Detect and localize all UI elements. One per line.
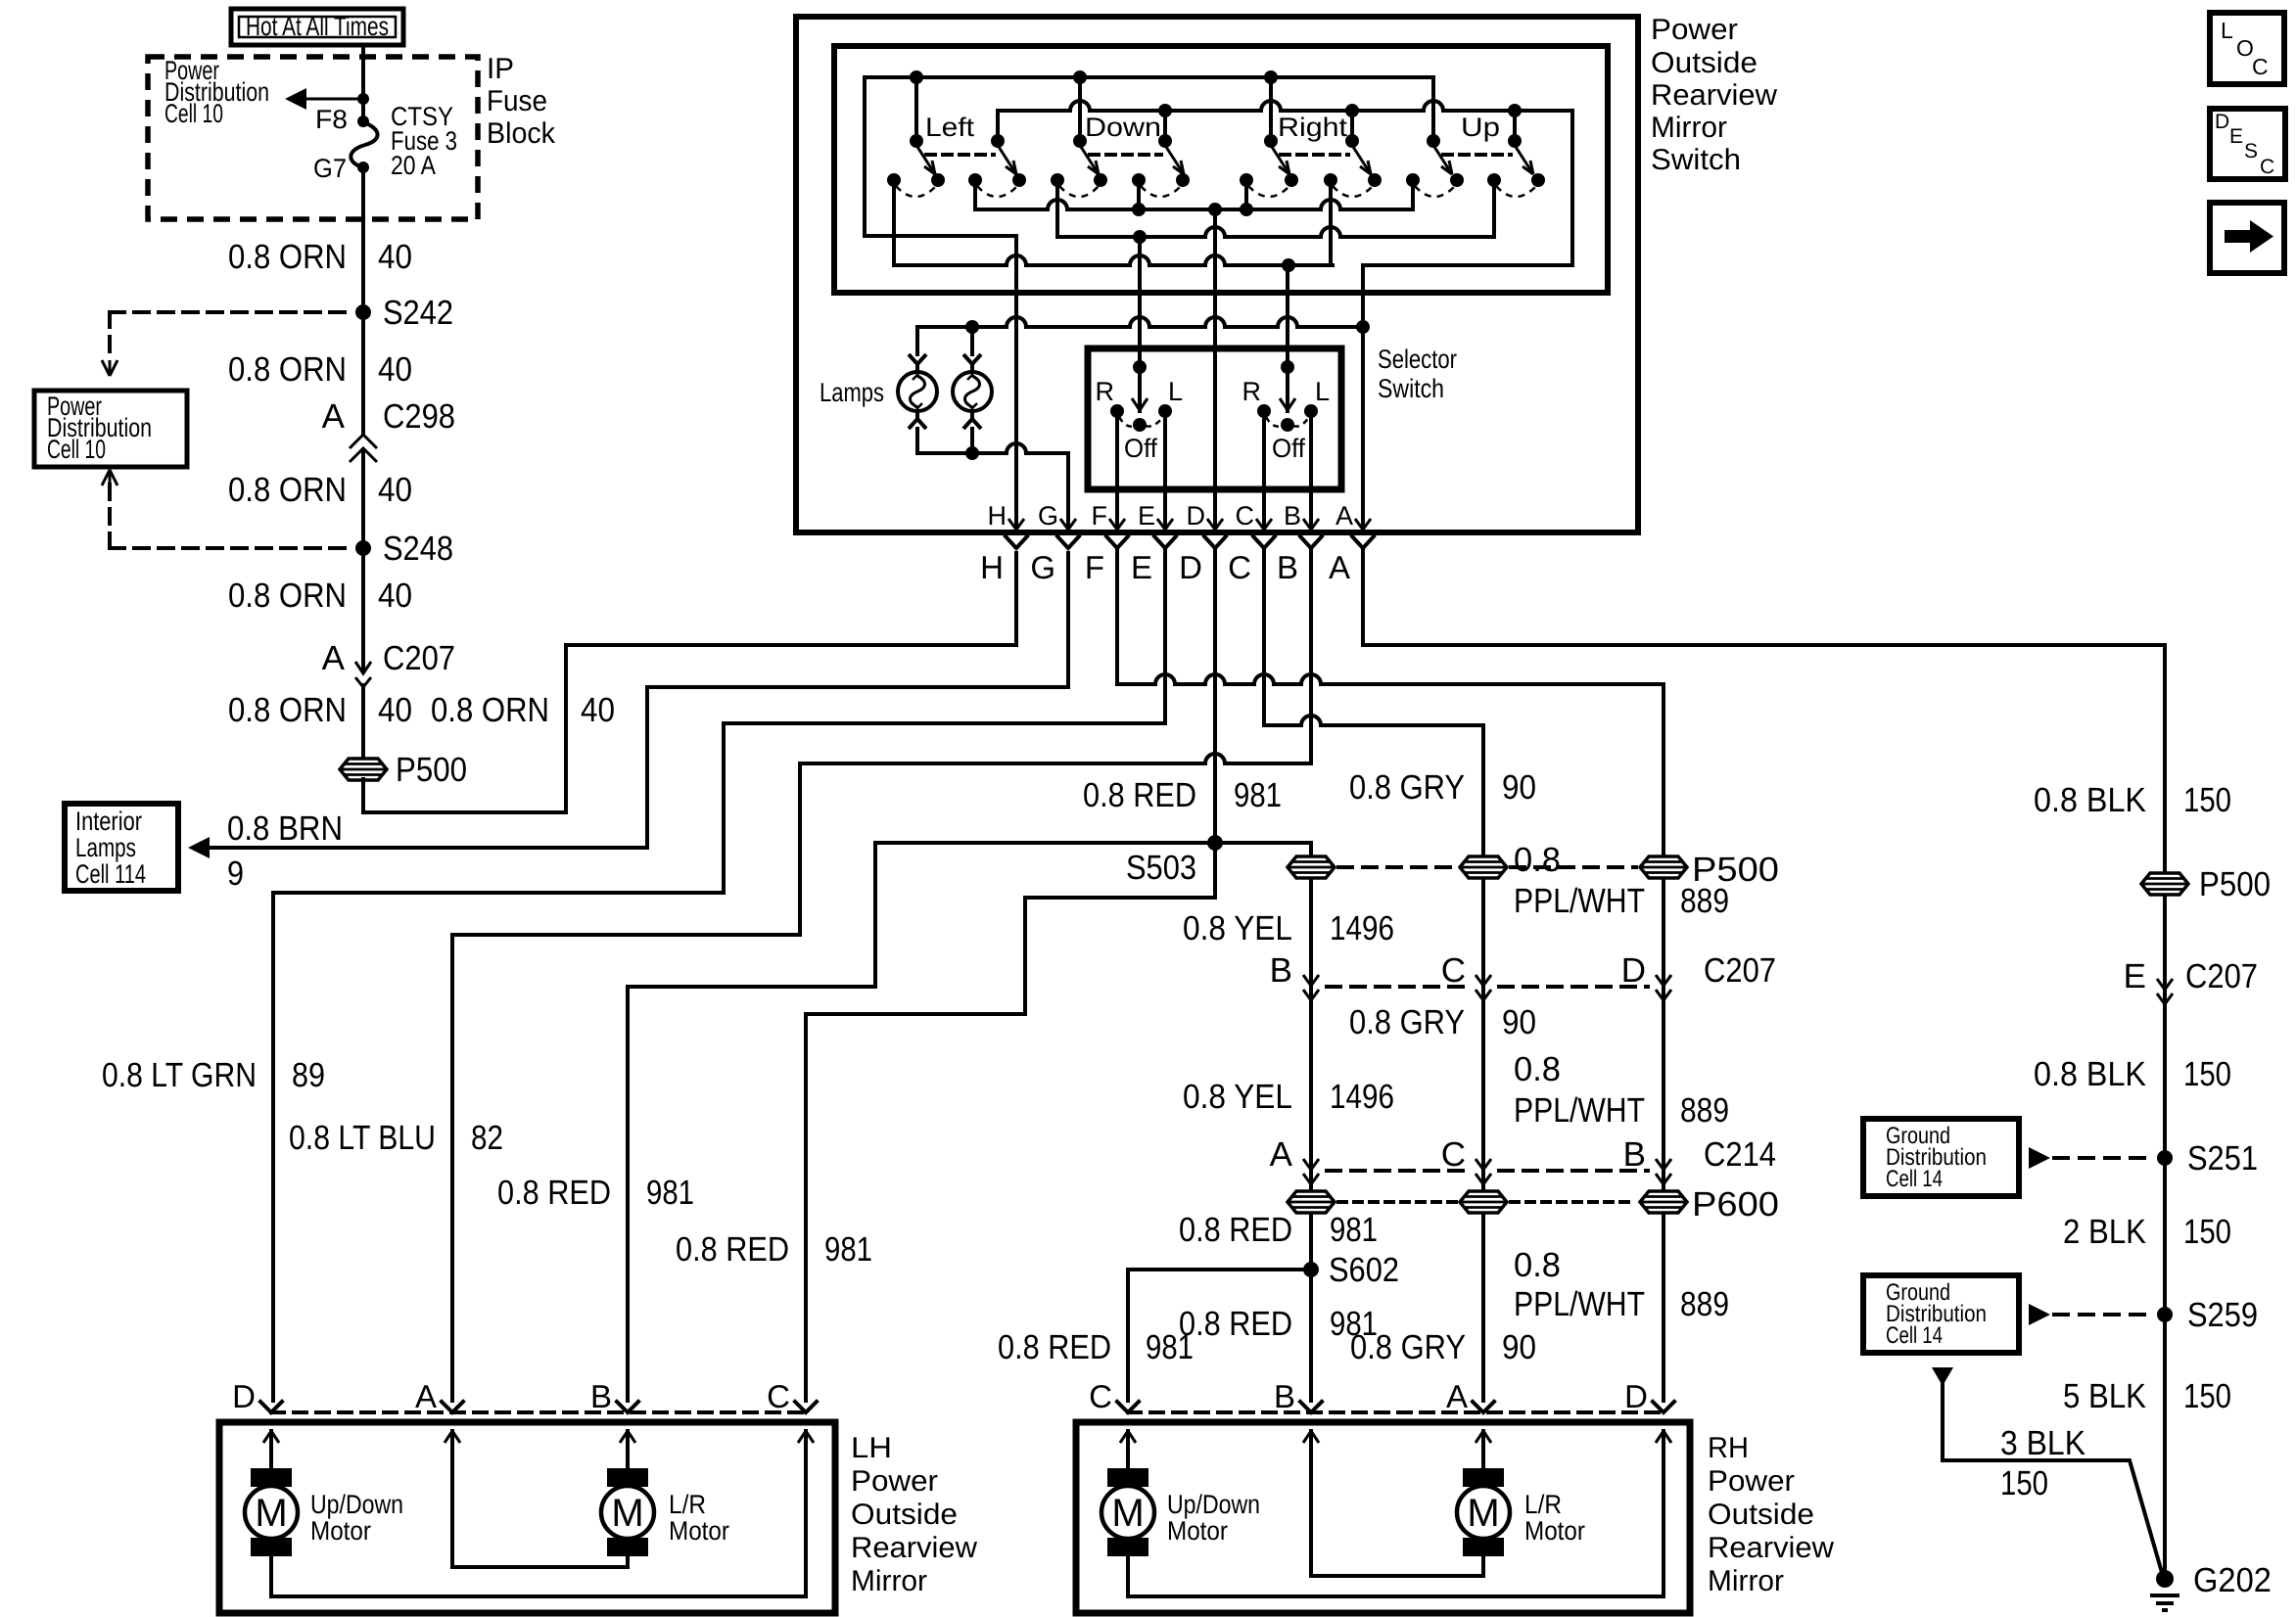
svg-text:G: G xyxy=(1038,501,1058,531)
wire from pin B (0.8 LT BLU 82) xyxy=(1309,548,1313,763)
RH mirror connector row xyxy=(1128,1410,1663,1414)
svg-text:0.8: 0.8 xyxy=(1514,841,1561,879)
svg-text:889: 889 xyxy=(1680,882,1729,920)
svg-text:L: L xyxy=(1168,377,1183,406)
svg-text:Cell 10: Cell 10 xyxy=(164,99,223,128)
svg-text:981: 981 xyxy=(824,1230,872,1269)
svg-text:Off: Off xyxy=(1124,434,1157,463)
svg-text:A: A xyxy=(322,397,346,436)
svg-text:R: R xyxy=(1242,377,1262,406)
pin connectors and letters below switch xyxy=(1006,536,1027,548)
svg-text:E: E xyxy=(1131,549,1152,585)
arrow to Power Distribution Cell 10 (left) xyxy=(285,88,369,110)
svg-text:Off: Off xyxy=(1272,434,1305,463)
LH Power Outside Rearview Mirror box xyxy=(219,1422,835,1613)
S503 branch down middle chain xyxy=(1215,843,1311,1401)
svg-text:Power: Power xyxy=(851,1465,938,1498)
svg-text:A: A xyxy=(1329,549,1350,585)
Ground Distribution Cell 14 box (upper) xyxy=(1863,1119,2019,1196)
svg-text:0.8 ORN: 0.8 ORN xyxy=(228,471,347,509)
svg-text:0.8 BLK: 0.8 BLK xyxy=(2034,1055,2146,1093)
svg-text:Mirror: Mirror xyxy=(1708,1565,1784,1597)
svg-text:Up: Up xyxy=(1461,113,1500,142)
svg-text:889: 889 xyxy=(1680,1285,1729,1323)
svg-text:150: 150 xyxy=(2183,1213,2231,1251)
wire label 0.8 ORN 40 xyxy=(228,238,412,276)
switch pivots and arms xyxy=(910,134,923,148)
svg-text:P600: P600 xyxy=(1692,1185,1779,1224)
wire from pin D (0.8 RED 981) xyxy=(1213,548,1217,843)
svg-text:40: 40 xyxy=(378,691,412,729)
dashed branch from S242 to Power Distribution box xyxy=(102,312,353,376)
svg-text:0.8: 0.8 xyxy=(1514,1050,1561,1088)
svg-text:89: 89 xyxy=(292,1056,325,1094)
svg-text:F: F xyxy=(1092,501,1108,531)
svg-text:150: 150 xyxy=(2183,1055,2231,1093)
svg-text:Lamps: Lamps xyxy=(820,378,884,407)
svg-text:40: 40 xyxy=(378,350,412,389)
svg-text:D: D xyxy=(1621,951,1646,990)
svg-text:Lamps: Lamps xyxy=(75,833,136,862)
svg-text:0.8 ORN: 0.8 ORN xyxy=(228,691,347,729)
svg-text:Cell 14: Cell 14 xyxy=(1886,1322,1943,1349)
svg-text:D: D xyxy=(1624,1378,1648,1414)
svg-text:S248: S248 xyxy=(383,530,453,568)
svg-text:A: A xyxy=(415,1378,437,1414)
selector common feed from second bus xyxy=(1363,111,1572,327)
selector group feeds xyxy=(1140,237,1288,411)
svg-text:90: 90 xyxy=(1502,1328,1536,1366)
svg-text:S602: S602 xyxy=(1329,1251,1399,1289)
svg-text:E: E xyxy=(2229,125,2243,148)
svg-text:D: D xyxy=(232,1378,256,1414)
svg-text:1496: 1496 xyxy=(1330,909,1394,947)
ground G202 xyxy=(2156,1570,2174,1588)
wire label 0.8 ORN 40 xyxy=(228,471,412,509)
svg-text:C207: C207 xyxy=(2185,957,2258,995)
svg-text:L: L xyxy=(1315,377,1330,406)
RH internal wires xyxy=(1128,1431,1663,1596)
svg-text:0.8 YEL: 0.8 YEL xyxy=(1183,1078,1292,1116)
RH Power Outside Rearview Mirror box xyxy=(1076,1422,1690,1613)
svg-text:A: A xyxy=(1446,1378,1468,1414)
svg-text:C: C xyxy=(767,1378,790,1414)
DESC icon box xyxy=(2210,109,2285,179)
svg-text:40: 40 xyxy=(378,238,412,276)
RH L/R motor xyxy=(1457,1468,1510,1556)
svg-text:Power: Power xyxy=(1651,14,1738,46)
H feed jog from top bus xyxy=(865,77,1016,236)
rail R3 xyxy=(894,255,1333,265)
svg-text:B: B xyxy=(1274,1378,1295,1414)
splice S259 xyxy=(2157,1307,2173,1322)
svg-text:0.8 GRY: 0.8 GRY xyxy=(1350,1328,1466,1366)
selector group 2 xyxy=(1242,360,1331,532)
svg-text:B: B xyxy=(1284,501,1301,531)
svg-text:0.8 ORN: 0.8 ORN xyxy=(228,350,347,389)
svg-text:E: E xyxy=(1138,501,1155,531)
svg-text:L/R: L/R xyxy=(669,1490,706,1519)
connector row C214 xyxy=(1303,1159,1319,1184)
svg-text:S242: S242 xyxy=(383,294,453,332)
splice S503 xyxy=(1207,835,1223,851)
wire from pin A (0.8 BLK 150) xyxy=(1363,548,2165,1579)
svg-text:Switch: Switch xyxy=(1651,144,1741,176)
svg-text:Motor: Motor xyxy=(310,1516,371,1546)
connector C298 pin A xyxy=(322,312,455,548)
S602 branch to RH mirror pin C xyxy=(1128,1270,1311,1401)
wire ORN to pin H of switch xyxy=(363,553,1016,812)
svg-text:A: A xyxy=(322,639,346,677)
svg-text:0.8: 0.8 xyxy=(1514,1246,1561,1284)
svg-text:0.8 RED: 0.8 RED xyxy=(998,1328,1111,1366)
svg-text:9: 9 xyxy=(227,855,244,893)
svg-text:Hot At All Times: Hot At All Times xyxy=(246,12,389,41)
grommet P500 left xyxy=(340,751,467,789)
svg-text:Up/Down: Up/Down xyxy=(310,1490,403,1519)
svg-text:D: D xyxy=(2215,111,2229,133)
svg-text:R: R xyxy=(1096,377,1115,406)
svg-text:1496: 1496 xyxy=(1330,1078,1394,1116)
svg-text:C: C xyxy=(1089,1378,1112,1414)
svg-text:S251: S251 xyxy=(2187,1139,2258,1178)
svg-text:981: 981 xyxy=(1146,1328,1194,1366)
svg-text:B: B xyxy=(590,1378,612,1414)
bus junction dots xyxy=(910,70,923,84)
splice S602 xyxy=(1303,1262,1319,1277)
wire from pin C (0.8 GRY 90) xyxy=(1262,548,1266,725)
svg-text:889: 889 xyxy=(1680,1091,1729,1130)
svg-text:Right: Right xyxy=(1278,113,1348,142)
pin H feed xyxy=(1014,236,1018,532)
svg-text:981: 981 xyxy=(1234,776,1282,814)
svg-text:S259: S259 xyxy=(2187,1296,2258,1334)
top bus (pole1 pivots) xyxy=(865,75,1433,79)
wire label 0.8 ORN 40 xyxy=(228,577,412,615)
connector row C207 (middle) xyxy=(1303,975,1319,1000)
svg-text:0.8 ORN: 0.8 ORN xyxy=(228,577,347,615)
svg-text:Mirror: Mirror xyxy=(851,1565,927,1597)
svg-text:B: B xyxy=(1277,549,1298,585)
svg-text:C: C xyxy=(2252,54,2269,79)
wire labels 0.8 ORN 40 (two) xyxy=(228,691,615,729)
LOC icon box xyxy=(2210,13,2284,84)
S503 branch to LH mirror pin C xyxy=(806,843,1215,1401)
pin D feed xyxy=(1213,209,1217,532)
svg-text:L: L xyxy=(2221,18,2233,43)
svg-text:Block: Block xyxy=(487,117,556,150)
Interior Lamps Cell 114 box xyxy=(65,804,178,891)
svg-text:Cell 114: Cell 114 xyxy=(75,859,146,889)
svg-text:S: S xyxy=(2244,140,2258,162)
IP fuse block dashed box xyxy=(148,53,556,219)
svg-text:B: B xyxy=(1270,951,1292,990)
svg-text:0.8 GRY: 0.8 GRY xyxy=(1349,1003,1465,1041)
svg-text:981: 981 xyxy=(646,1174,694,1212)
LH L/R motor xyxy=(601,1468,654,1556)
wire BRN to Interior Lamps xyxy=(188,553,1068,893)
lamps xyxy=(917,327,972,354)
selector group 1 xyxy=(1096,360,1184,532)
splice S242 xyxy=(355,294,453,332)
svg-text:2 BLK: 2 BLK xyxy=(2063,1213,2146,1251)
svg-text:P500: P500 xyxy=(2199,865,2271,903)
svg-text:F: F xyxy=(1085,549,1104,585)
svg-text:981: 981 xyxy=(1330,1211,1378,1249)
svg-text:C214: C214 xyxy=(1704,1135,1776,1174)
svg-text:H: H xyxy=(980,549,1004,585)
Ground Distribution Cell 14 box (lower) xyxy=(1863,1275,2019,1353)
svg-text:C: C xyxy=(2260,156,2274,178)
svg-text:D: D xyxy=(1187,501,1206,531)
svg-text:Power: Power xyxy=(1708,1465,1795,1498)
lamp rail xyxy=(917,317,1363,327)
svg-text:0.8 RED: 0.8 RED xyxy=(1179,1305,1292,1343)
svg-text:IP: IP xyxy=(487,53,514,85)
svg-text:40: 40 xyxy=(581,691,615,729)
svg-text:PPL/WHT: PPL/WHT xyxy=(1514,882,1645,920)
fuse F8/G7 CTSY Fuse 3 20 A xyxy=(313,102,457,183)
svg-text:90: 90 xyxy=(1502,1003,1536,1041)
svg-text:150: 150 xyxy=(2183,1377,2231,1415)
svg-text:0.8 YEL: 0.8 YEL xyxy=(1183,909,1292,947)
dashed arrow up into Power Distribution box xyxy=(102,470,353,548)
svg-text:Cell 14: Cell 14 xyxy=(1886,1166,1943,1192)
svg-text:A: A xyxy=(1270,1135,1293,1174)
svg-text:0.8 ORN: 0.8 ORN xyxy=(228,238,347,276)
grommet P500 right xyxy=(2141,873,2188,895)
svg-text:Switch: Switch xyxy=(1378,374,1444,403)
lamps bottom rail to pin G xyxy=(917,443,1068,453)
svg-text:C: C xyxy=(1441,1135,1466,1174)
wire from pin F (0.8 PPL/WHT 889) xyxy=(1115,548,1119,684)
svg-text:Left: Left xyxy=(925,113,975,142)
LH mirror connector row xyxy=(271,1410,806,1414)
svg-text:3 BLK: 3 BLK xyxy=(2000,1424,2085,1462)
Power Outside Rearview Mirror Switch outer box xyxy=(796,17,1638,532)
S503 branch to LH mirror pin B xyxy=(628,843,1215,1401)
svg-text:5 BLK: 5 BLK xyxy=(2063,1377,2146,1415)
svg-text:90: 90 xyxy=(1502,768,1536,807)
svg-text:C: C xyxy=(1236,501,1255,531)
svg-text:Outside: Outside xyxy=(1651,47,1757,79)
wire label 0.8 ORN 40 xyxy=(228,350,412,389)
svg-text:0.8 RED: 0.8 RED xyxy=(497,1174,611,1212)
3 BLK 150 branch from lower ground box xyxy=(1932,1367,1953,1386)
grommet row P500 xyxy=(1288,856,1335,878)
svg-text:40: 40 xyxy=(378,471,412,509)
svg-text:Outside: Outside xyxy=(1708,1499,1814,1531)
svg-text:Selector: Selector xyxy=(1378,345,1457,374)
splice S251 xyxy=(2157,1150,2173,1166)
svg-text:0.8 ORN: 0.8 ORN xyxy=(431,691,549,729)
svg-text:G7: G7 xyxy=(313,154,347,183)
svg-text:H: H xyxy=(988,501,1007,531)
svg-text:40: 40 xyxy=(378,577,412,615)
svg-text:E: E xyxy=(2124,957,2146,995)
svg-text:F8: F8 xyxy=(315,105,348,134)
svg-text:Interior: Interior xyxy=(75,807,142,836)
LH internal wires xyxy=(271,1431,806,1596)
svg-text:C298: C298 xyxy=(383,397,455,436)
svg-text:0.8 RED: 0.8 RED xyxy=(1179,1211,1292,1249)
svg-text:S503: S503 xyxy=(1126,849,1196,887)
svg-text:82: 82 xyxy=(471,1119,503,1157)
svg-text:0.8 GRY: 0.8 GRY xyxy=(1349,768,1465,807)
svg-text:A: A xyxy=(1335,501,1353,531)
svg-text:0.8 RED: 0.8 RED xyxy=(1083,776,1196,814)
splice S248 xyxy=(355,530,453,568)
svg-text:Motor: Motor xyxy=(669,1516,729,1546)
svg-text:P500: P500 xyxy=(396,751,467,789)
svg-text:20 A: 20 A xyxy=(391,151,436,180)
svg-text:Down: Down xyxy=(1085,113,1161,142)
svg-text:Rearview: Rearview xyxy=(1708,1532,1834,1564)
svg-text:C207: C207 xyxy=(1704,951,1776,990)
svg-text:0.8 BRN: 0.8 BRN xyxy=(227,809,343,848)
inner contact box xyxy=(834,46,1608,293)
wire fuse to S242 xyxy=(361,167,365,312)
svg-text:Mirror: Mirror xyxy=(1651,112,1727,144)
svg-text:Motor: Motor xyxy=(1167,1516,1228,1546)
svg-text:L/R: L/R xyxy=(1524,1490,1562,1519)
pivot feed wires xyxy=(916,77,1433,141)
RH Up/Down motor xyxy=(1101,1468,1154,1556)
svg-text:0.8 BLK: 0.8 BLK xyxy=(2034,781,2146,819)
svg-text:C: C xyxy=(1228,549,1251,585)
LH Up/Down motor xyxy=(245,1468,298,1556)
grommet row P600 xyxy=(1288,1191,1335,1213)
svg-text:PPL/WHT: PPL/WHT xyxy=(1514,1285,1645,1323)
arrow icon box xyxy=(2210,203,2284,273)
svg-text:Motor: Motor xyxy=(1524,1516,1585,1546)
svg-text:C: C xyxy=(1441,951,1466,990)
svg-text:RH: RH xyxy=(1708,1432,1749,1464)
rail R1 xyxy=(975,200,1413,209)
svg-text:B: B xyxy=(1623,1135,1646,1174)
contact drop wires xyxy=(892,186,896,265)
svg-text:Cell 10: Cell 10 xyxy=(47,435,106,464)
svg-text:D: D xyxy=(1179,549,1202,585)
pin A wire xyxy=(1361,327,1365,532)
svg-text:PPL/WHT: PPL/WHT xyxy=(1514,1091,1645,1130)
svg-text:Rearview: Rearview xyxy=(1651,79,1777,112)
svg-text:Up/Down: Up/Down xyxy=(1167,1490,1260,1519)
selector switch box xyxy=(1088,348,1341,489)
svg-text:Outside: Outside xyxy=(851,1499,958,1531)
svg-text:Rearview: Rearview xyxy=(851,1532,977,1564)
svg-text:0.8 LT BLU: 0.8 LT BLU xyxy=(289,1119,436,1157)
Power Distribution Cell 10 box xyxy=(34,391,187,467)
rail R2 xyxy=(1057,227,1494,237)
svg-text:0.8 LT GRN: 0.8 LT GRN xyxy=(102,1056,257,1094)
svg-text:G202: G202 xyxy=(2193,1561,2272,1599)
wire from pin E (0.8 LT GRN 89) xyxy=(273,548,1165,1401)
connector C207 pin A xyxy=(322,548,455,761)
svg-text:LH: LH xyxy=(851,1432,892,1464)
svg-text:C207: C207 xyxy=(383,639,455,677)
wire from Hot box into fuse block xyxy=(361,45,365,121)
svg-text:150: 150 xyxy=(2183,781,2231,819)
svg-text:150: 150 xyxy=(2000,1464,2048,1502)
svg-text:G: G xyxy=(1030,549,1055,585)
second bus (pole2 pivots) xyxy=(998,109,1572,113)
svg-text:0.8 RED: 0.8 RED xyxy=(676,1230,789,1269)
Hot At All Times box xyxy=(231,9,403,45)
svg-text:Fuse: Fuse xyxy=(487,85,547,117)
